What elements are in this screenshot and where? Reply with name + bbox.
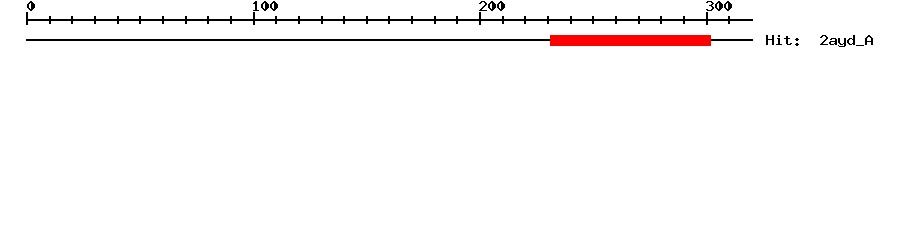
minor tick 150 — [366, 16, 368, 24]
minor tick 10 — [49, 16, 51, 24]
minor tick 220 — [524, 16, 526, 24]
ruler label 0 — [27, 1, 35, 11]
minor tick 310 — [728, 16, 730, 24]
hit aligned-region bar (red) — [550, 35, 711, 46]
minor tick 130 — [321, 16, 323, 24]
minor tick 140 — [343, 16, 345, 24]
minor tick 250 — [592, 16, 594, 24]
ruler axis line — [26, 19, 753, 21]
minor tick 20 — [71, 16, 73, 24]
ruler label 300 — [706, 1, 732, 11]
hit label text "Hit: 2ayd_A" — [766, 35, 873, 47]
minor tick 290 — [683, 16, 685, 24]
minor tick 160 — [388, 16, 390, 24]
minor tick 170 — [411, 16, 413, 24]
ruler label 100 — [253, 1, 278, 11]
minor tick 70 — [185, 16, 187, 24]
major tick 100 — [253, 12, 255, 25]
minor tick 90 — [230, 16, 232, 24]
minor tick 230 — [547, 16, 549, 24]
ruler label 200 — [479, 1, 505, 11]
minor tick 280 — [660, 16, 662, 24]
minor tick 190 — [456, 16, 458, 24]
minor tick 60 — [162, 16, 164, 24]
minor tick 110 — [275, 16, 277, 24]
minor tick 270 — [638, 16, 640, 24]
minor tick 40 — [117, 16, 119, 24]
hit query-extent line — [26, 39, 753, 41]
minor tick 260 — [615, 16, 617, 24]
major tick 200 — [479, 12, 481, 25]
minor tick 80 — [207, 16, 209, 24]
major tick 300 — [706, 12, 708, 25]
minor tick 210 — [502, 16, 504, 24]
major tick 0 — [26, 12, 28, 25]
minor tick 120 — [298, 16, 300, 24]
minor tick 180 — [434, 16, 436, 24]
minor tick 240 — [570, 16, 572, 24]
minor tick 50 — [139, 16, 141, 24]
minor tick 30 — [94, 16, 96, 24]
